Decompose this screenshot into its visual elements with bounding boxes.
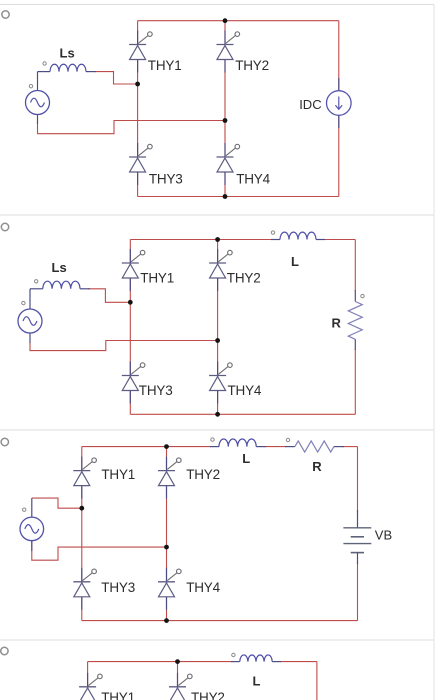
- junction top rail / THY2 S3: [164, 444, 169, 449]
- junction AC to THY1-THY3 S1: [135, 82, 140, 87]
- svg-text:VB: VB: [375, 528, 392, 543]
- thyristor THY1 S1: [129, 31, 152, 73]
- lead AC top S2: [29, 289, 31, 309]
- separator option2/option3: [0, 429, 434, 431]
- lead AC bottom S1: [37, 115, 39, 125]
- svg-text:THY4: THY4: [236, 171, 270, 186]
- wire top rail left S3: [82, 446, 211, 448]
- terminal marker of resistor R S3: [286, 438, 289, 441]
- radio button option 4: [1, 647, 8, 654]
- wire THY1-THY3 column S3: [81, 447, 83, 621]
- svg-text:THY2: THY2: [235, 58, 269, 73]
- separator option3/option4: [0, 639, 434, 641]
- wire top rail left S4: [88, 661, 232, 663]
- wire AC top to bridge S1: [95, 72, 138, 84]
- lead right of L S3: [256, 446, 266, 448]
- wire THY2-THY4 column S1: [224, 21, 226, 197]
- thyristor THY2 S1: [217, 31, 240, 73]
- svg-text:Ls: Ls: [52, 260, 67, 275]
- junction bottom rail / THY4 S1: [223, 194, 228, 199]
- inductor L S4: [240, 655, 272, 662]
- thyristor THY1 S3: [73, 457, 96, 499]
- AC source VS1: [26, 91, 50, 115]
- wire top rail right S4: [280, 661, 317, 663]
- svg-text:THY4: THY4: [186, 580, 220, 595]
- wire AC top to bridge S2: [88, 289, 130, 303]
- junction AC to THY2-THY4 S1: [223, 118, 228, 123]
- lead R top S2: [354, 290, 356, 302]
- lead right of L S4: [272, 661, 281, 663]
- thyristor THY1 S4: [79, 673, 102, 700]
- svg-text:L: L: [242, 451, 250, 466]
- resistor R S2: [348, 302, 362, 340]
- svg-text:THY1: THY1: [140, 270, 174, 285]
- lead VB top: [357, 510, 359, 528]
- wire THY1-THY3 column S1: [137, 21, 139, 197]
- radio button option 2: [1, 223, 8, 230]
- card right border: [433, 5, 435, 700]
- wire AC bottom to bridge S1: [38, 121, 226, 134]
- terminal marker of inductor L S3: [211, 438, 214, 441]
- terminal marker of inductor L S2: [271, 231, 274, 234]
- separator option1/option2: [0, 214, 434, 216]
- wire top rail right S3: [343, 446, 358, 448]
- inductor L S2: [280, 232, 316, 239]
- radio button option 1: [2, 11, 9, 18]
- junction AC to THY2-THY4 S3: [164, 545, 169, 550]
- junction AC to THY2-THY4 S2: [215, 338, 220, 343]
- svg-text:Ls: Ls: [60, 46, 75, 61]
- wire AC bottom to bridge S3: [32, 541, 167, 560]
- lead left of L S3: [210, 446, 219, 448]
- thyristor THY3 S1: [129, 143, 152, 185]
- terminal marker of inductor Ls: [43, 62, 46, 65]
- svg-text:L: L: [253, 673, 261, 688]
- wire right IDC column S1: [338, 21, 340, 197]
- wire THY2-THY4 column S2: [217, 240, 219, 415]
- wire right R column upper S2: [354, 240, 356, 292]
- wire right VB column lower S3: [357, 562, 359, 621]
- wire AC bottom to bridge S2: [30, 341, 218, 351]
- junction top rail / THY2 S1: [223, 18, 228, 23]
- wire THY1 column S4: [87, 662, 89, 700]
- lead IDC top: [338, 78, 340, 91]
- svg-text:THY1: THY1: [148, 58, 182, 73]
- wire bottom rail S3: [82, 620, 358, 622]
- terminal marker of AC source VS2: [22, 301, 25, 304]
- wire bottom rail S2: [130, 413, 355, 415]
- thyristor THY4 S2: [209, 362, 232, 404]
- lead IDC bottom: [338, 115, 340, 128]
- svg-text:L: L: [291, 254, 299, 269]
- thyristor THY4 S1: [217, 143, 240, 185]
- svg-text:THY4: THY4: [228, 383, 262, 398]
- AC source VS2: [18, 309, 42, 333]
- thyristor THY3 S3: [73, 568, 96, 610]
- thyristor THY1 S2: [122, 249, 145, 291]
- thyristor THY2 S2: [209, 249, 232, 291]
- AC source VS3: [20, 517, 44, 541]
- svg-text:THY3: THY3: [101, 580, 135, 595]
- svg-text:R: R: [332, 315, 342, 330]
- terminal marker of AC source VS1: [29, 85, 32, 88]
- lead AC top S3: [31, 498, 33, 517]
- thyristor THY3 S2: [122, 362, 145, 404]
- lead right of R S3: [334, 446, 344, 448]
- junction bottom rail / THY4 S3: [164, 618, 169, 623]
- lead VB bottom: [357, 553, 359, 564]
- svg-text:IDC: IDC: [299, 97, 321, 112]
- wire AC top to bridge S3: [32, 498, 82, 508]
- wire THY2 column S4: [177, 662, 179, 700]
- svg-text:THY2: THY2: [186, 467, 220, 482]
- lead AC top S1: [37, 72, 39, 91]
- svg-text:R: R: [312, 459, 322, 474]
- wire bottom rail S1: [138, 196, 339, 198]
- lead AC bottom S2: [29, 333, 31, 343]
- wire top rail mid S3: [265, 446, 286, 448]
- terminal marker of inductor Ls S2: [35, 280, 38, 283]
- lead right of Ls S2: [80, 288, 90, 290]
- svg-text:THY3: THY3: [139, 383, 173, 398]
- battery VB: [343, 528, 371, 553]
- lead AC bottom S3: [31, 541, 33, 551]
- terminal marker of AC source VS3: [23, 508, 26, 511]
- lead left of Ls S2: [30, 288, 43, 290]
- lead left of L S2: [271, 239, 280, 241]
- wire THY2-THY4 column S3: [166, 447, 168, 621]
- junction bottom rail / THY4 S2: [215, 412, 220, 417]
- junction top rail / THY2 S2: [215, 237, 220, 242]
- lead left of Ls: [38, 71, 51, 73]
- wire top rail S1: [138, 20, 339, 22]
- svg-text:THY3: THY3: [149, 171, 183, 186]
- svg-text:THY2: THY2: [227, 270, 261, 285]
- wire right VB column upper S3: [357, 447, 359, 513]
- lead R bottom S2: [354, 339, 356, 350]
- lead left of R S3: [285, 446, 295, 448]
- radio button option 3: [1, 438, 8, 445]
- terminal marker of resistor R S2: [361, 294, 364, 297]
- lead right of L S2: [316, 239, 325, 241]
- thyristor THY2 S4: [169, 673, 192, 700]
- wire right R column lower S2: [354, 349, 356, 414]
- svg-text:THY1: THY1: [101, 690, 135, 700]
- thyristor THY2 S3: [158, 457, 181, 499]
- wire top rail right S2: [324, 239, 355, 241]
- junction AC to THY1-THY3 S2: [128, 300, 133, 305]
- inductor Ls S2: [43, 281, 80, 289]
- inductor Ls S1: [50, 64, 86, 71]
- current source IDC: [327, 91, 352, 116]
- svg-text:THY1: THY1: [101, 467, 135, 482]
- junction AC to THY1-THY3 S3: [79, 506, 84, 511]
- terminal marker of inductor L S4: [232, 653, 235, 656]
- lead right of Ls: [86, 71, 96, 73]
- svg-text:THY2: THY2: [191, 690, 225, 700]
- thyristor THY4 S3: [158, 568, 181, 610]
- resistor R S3: [295, 441, 334, 452]
- wire right column S4: [316, 662, 318, 700]
- lead left of L S4: [231, 661, 240, 663]
- inductor L S3: [219, 439, 256, 447]
- junction top rail / THY2 S4: [175, 659, 180, 664]
- card top border: [0, 4, 434, 6]
- wire THY1-THY3 column S2: [129, 240, 131, 415]
- wire top rail left S2: [130, 239, 272, 241]
